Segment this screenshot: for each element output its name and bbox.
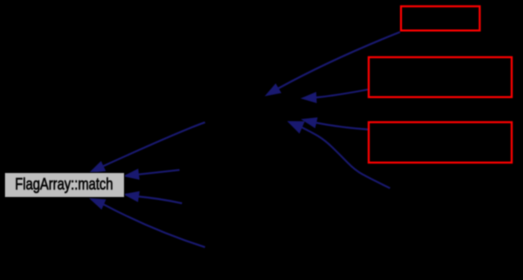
- arrowhead R1->hub: [266, 84, 281, 95]
- edge from hidden caller C (bottom) to FlagArray::match (bottom edge): [103, 204, 205, 247]
- arrowhead D->hub: [288, 122, 304, 133]
- red truncated node R2 (middle): [369, 57, 512, 97]
- edge from top red box R1 to hidden hub node: [278, 32, 400, 89]
- arrowhead R2->hub: [302, 93, 316, 103]
- arrowhead hub->FlagArray::match: [90, 162, 105, 172]
- arrowhead B->FlagArray::match: [125, 192, 140, 202]
- node FlagArray::match (current node, grey fill): [5, 173, 125, 198]
- edge from middle red box R2 to hidden hub node: [316, 90, 368, 98]
- edge from hidden caller D (bottom right) to hidden hub node (S-curve): [302, 127, 390, 188]
- red truncated node R1 (top): [401, 6, 480, 30]
- edge from hidden caller B to FlagArray::match (right side lower): [138, 197, 182, 204]
- edge from hidden caller A to FlagArray::match (right side upper): [138, 170, 179, 175]
- arrowhead R3->hub: [302, 118, 317, 128]
- red truncated node R3 (bottom): [369, 122, 512, 162]
- edge from hidden hub node to FlagArray::match (top-right corner): [103, 122, 205, 166]
- svg-text:FlagArray::match: FlagArray::match: [15, 175, 113, 194]
- edge from bottom red box R3 to hidden hub node: [316, 123, 369, 130]
- arrowhead C->FlagArray::match: [91, 199, 106, 209]
- arrowhead A->FlagArray::match: [125, 169, 140, 179]
